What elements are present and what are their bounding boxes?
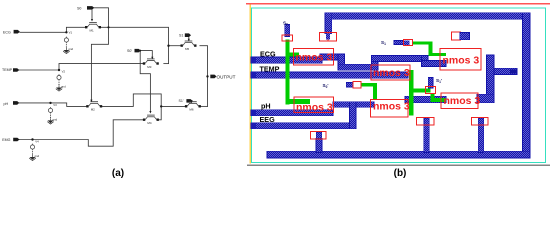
layout text labels (112, 21, 481, 180)
trace end caps (251, 57, 256, 63)
gate arrow M5 (188, 39, 190, 42)
svg-text:(b): (b) (394, 168, 407, 179)
svg-text:nmos 3: nmos 3 (444, 95, 481, 107)
metal bottom ground trace (267, 151, 530, 158)
weave: box1 exit (320, 54, 344, 60)
metal top U left vertical (325, 13, 332, 34)
svg-text:nmos 3: nmos 3 (296, 101, 333, 113)
svg-text:S1': S1' (436, 78, 442, 84)
port ECG (14, 30, 20, 34)
svg-text:M6: M6 (189, 108, 193, 112)
metal1 pH trace (251, 110, 333, 116)
contact pair above box3 (452, 32, 461, 40)
vsource V4 (30, 144, 34, 155)
svg-text:S0': S0' (323, 83, 329, 89)
metal right long vertical (523, 13, 531, 158)
transistor M1 (85, 22, 101, 28)
port S1prime (186, 99, 192, 103)
metal1 EEG trace (251, 123, 356, 129)
ground under V2 (56, 85, 62, 91)
contact double red box under top U vertical (320, 32, 329, 41)
poly S1' run (430, 94, 434, 102)
svg-text:(a): (a) (112, 168, 124, 179)
svg-text:pH: pH (4, 102, 9, 106)
port TEMP (13, 68, 19, 72)
bottom stub 1 (316, 139, 322, 153)
ground under V4 (29, 155, 35, 161)
svg-text:pH: pH (261, 101, 271, 110)
poly elbow into box4 (286, 99, 310, 104)
svg-text:nmos 3: nmos 3 (373, 101, 410, 113)
svg-text:M3: M3 (147, 65, 151, 69)
svg-text:M5: M5 (185, 47, 189, 51)
junction dot V1 (65, 31, 67, 33)
junction dot merge ECG-TEMP (167, 45, 169, 47)
svg-text:M2: M2 (91, 108, 95, 112)
svg-text:nmos 3: nmos 3 (296, 52, 333, 64)
svg-text:gnd: gnd (35, 154, 40, 158)
wire S1 to M5 gate (188, 37, 190, 41)
poly green S0 vertical (286, 40, 290, 105)
transistor M6 (185, 101, 201, 107)
metal1 ECG trace (251, 57, 322, 63)
svg-text:OUTPUT: OUTPUT (217, 74, 236, 79)
svg-text:V4: V4 (35, 140, 39, 144)
svg-text:gnd: gnd (68, 47, 73, 51)
nmos box B4 (294, 97, 334, 113)
svg-text:M1: M1 (90, 29, 94, 33)
select S1 contact (394, 40, 404, 44)
wire S0' branch to M4 gate (140, 51, 150, 112)
gray bottom line (247, 164, 550, 166)
wire ECG input run (20, 27, 85, 32)
panel teal border (252, 8, 546, 163)
port pH (13, 101, 19, 105)
svg-text:S0': S0' (127, 49, 132, 53)
junction dot merge pH-EMG (160, 105, 162, 107)
junction dot V4 (31, 138, 33, 140)
wire S1' to M6 gate (191, 101, 193, 103)
svg-text:S0: S0 (77, 6, 81, 10)
yellow left border line (249, 5, 251, 164)
metal box5 to box6 connector (405, 96, 446, 102)
port S0prime (135, 49, 141, 53)
ground under V1 (63, 48, 69, 54)
svg-text:S1: S1 (381, 40, 386, 46)
gate arrow M3 (151, 57, 153, 60)
metal top U horizontal (325, 13, 530, 20)
gate arrow M1 (91, 19, 93, 22)
svg-text:ECG: ECG (260, 50, 276, 59)
svg-text:TEMP: TEMP (260, 65, 280, 74)
svg-text:V2: V2 (62, 70, 66, 74)
bottom stub 3 (478, 125, 484, 153)
port OUTPUT (210, 75, 216, 79)
svg-text:ECG: ECG (3, 30, 11, 34)
vsource V2 (57, 74, 61, 85)
nmos box B6 (441, 93, 478, 109)
panel frame top red line (246, 3, 550, 5)
wire M5 source tap (169, 45, 181, 47)
gate arrow M4 (149, 111, 151, 114)
wire TEMP input run (19, 64, 143, 70)
poly box2 gate vertical (409, 70, 414, 116)
vsource V1 (64, 37, 68, 48)
svg-text:gnd: gnd (61, 85, 66, 89)
wire ECG M1 drain to merge vertical (101, 27, 169, 63)
transistor M3 (143, 59, 159, 65)
poly S0' run (361, 83, 377, 87)
gate arrow M6 (191, 100, 193, 103)
svg-text:S0: S0 (283, 21, 288, 27)
bottom stub 2 (424, 125, 430, 153)
select S0' contact (346, 82, 353, 87)
wire M3 drain to merge vertical (164, 63, 169, 65)
svg-text:M4: M4 (147, 121, 151, 125)
junction dot S0' branch (139, 50, 141, 52)
metal box3 drain vertical (487, 55, 495, 103)
nmos box B3 (440, 49, 481, 71)
wire M2 drain hop over (101, 94, 185, 107)
svg-text:gnd: gnd (53, 117, 58, 121)
wire pH input run (19, 103, 86, 107)
nmos box B2 (371, 65, 410, 80)
wire M4 drain up to merge (159, 106, 161, 119)
junction dot V2 (58, 69, 60, 71)
transistor M4 (143, 115, 159, 121)
poly S1 run (412, 41, 432, 44)
select S0 contact (285, 24, 290, 36)
poly stub into box1 (290, 53, 299, 57)
metal EEG jog up (350, 102, 357, 129)
text labels schematic (2, 6, 236, 158)
wire M5 drain to output vertical (200, 46, 208, 107)
gate arrow M2 (90, 100, 92, 103)
svg-text:V3: V3 (53, 103, 57, 107)
metal box6 right link (477, 94, 494, 102)
select S1' contact (428, 78, 433, 89)
metal box4 to box5 connector (333, 102, 374, 108)
wire S0' net (139, 51, 152, 57)
port EMG (13, 138, 19, 142)
svg-text:nmos 3: nmos 3 (443, 55, 480, 67)
nmos box B5 (370, 99, 408, 117)
transistor M5 (181, 41, 197, 47)
svg-text:EEG: EEG (260, 115, 276, 124)
svg-text:nmos 3: nmos 3 (373, 67, 410, 79)
nmos box B1 (294, 49, 334, 65)
wire S0 net (91, 8, 108, 100)
junction dot output (206, 75, 208, 77)
svg-text:S1: S1 (179, 34, 183, 38)
junction dot wire cross S0-ECG (107, 26, 109, 28)
svg-text:S1': S1' (179, 99, 184, 103)
metal1 TEMP trace (251, 72, 408, 78)
vsource V3 (48, 107, 52, 118)
svg-text:TEMP: TEMP (2, 68, 13, 72)
port S0 (87, 6, 94, 10)
transistor M2 (86, 101, 102, 107)
wire S0 to M1 gate (91, 10, 93, 19)
svg-text:V1: V1 (69, 31, 73, 35)
port S1 (185, 33, 191, 37)
wire EMG input run (19, 120, 142, 146)
junction dot V3 (49, 102, 51, 104)
wire M6 drain to output vertical (200, 105, 208, 107)
ground under V3 (47, 118, 53, 124)
metal branch right with tip (494, 68, 517, 74)
svg-text:EMG: EMG (2, 138, 10, 142)
